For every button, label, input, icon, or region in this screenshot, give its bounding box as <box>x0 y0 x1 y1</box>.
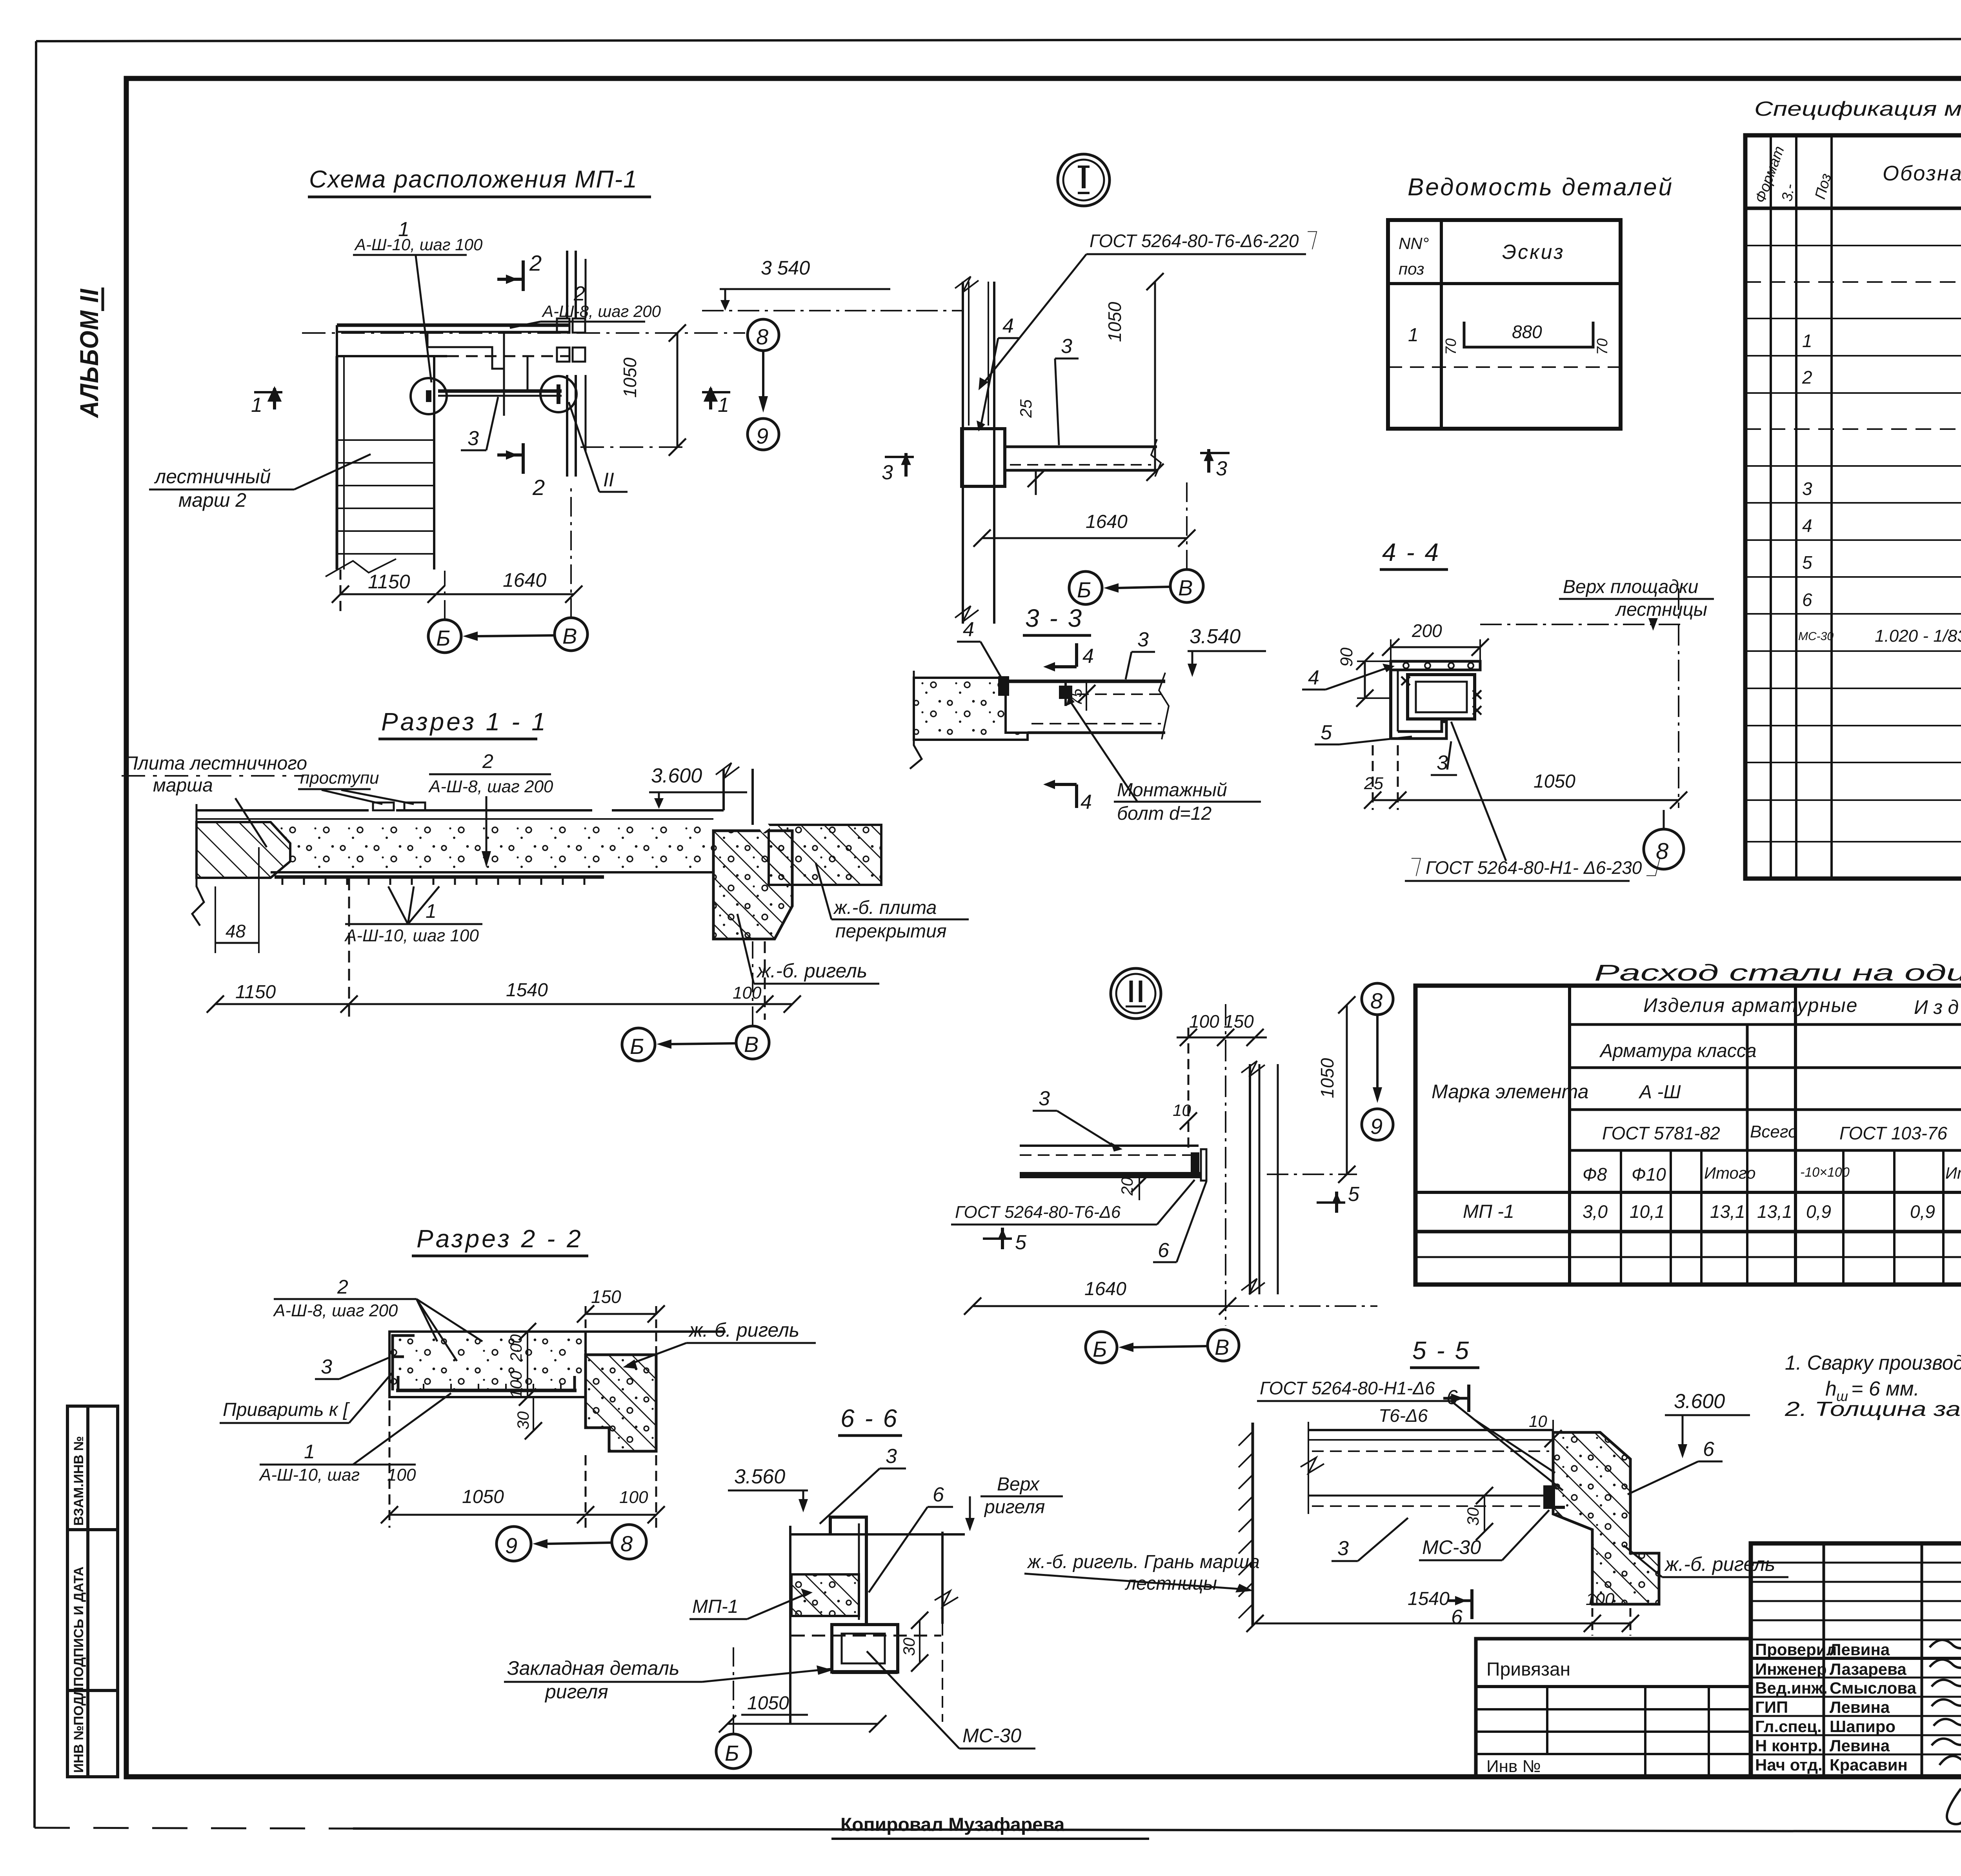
svg-text:Расход стали на один элеме: Расход стали на один элемент, кг <box>1594 960 1961 986</box>
detail circle on plan (right, node II) <box>540 376 577 412</box>
channel end at left <box>393 1336 415 1390</box>
svg-text:1640: 1640 <box>1084 1279 1126 1299</box>
svg-text:А-Ш-8, шаг 200: А-Ш-8, шаг 200 <box>273 1301 398 1320</box>
svg-text:2: 2 <box>529 251 542 275</box>
svg-text:5: 5 <box>1802 552 1812 573</box>
svg-text:48: 48 <box>226 921 246 941</box>
signature rows <box>1755 1640 1917 1774</box>
svg-text:Левина: Левина <box>1830 1736 1890 1755</box>
wall verticals of node I <box>955 277 994 624</box>
svg-text:3: 3 <box>468 427 479 450</box>
slab of node I <box>1005 439 1161 477</box>
svg-text:Шапиро: Шапиро <box>1830 1717 1896 1736</box>
svg-text:3: 3 <box>882 461 893 484</box>
svg-text:Верх площадки: Верх площадки <box>1563 577 1698 597</box>
concrete band of 6-6 <box>791 1574 859 1616</box>
svg-text:ГОСТ 5264-80-Н1-Δ6: ГОСТ 5264-80-Н1-Δ6 <box>1260 1378 1435 1398</box>
svg-text:1: 1 <box>304 1441 315 1463</box>
svg-text:6: 6 <box>1158 1239 1169 1262</box>
svg-text:10,1: 10,1 <box>1630 1201 1665 1222</box>
svg-text:В: В <box>744 1032 759 1057</box>
floor slab right hatched <box>769 825 881 885</box>
axis circle 8 with arrow to 9 <box>748 319 779 351</box>
svg-text:Спецификация монолитной ж-б: Спецификация монолитной ж-б лестничной п… <box>1754 98 1961 120</box>
svg-text:Приварить к [: Приварить к [ <box>223 1399 350 1420</box>
wall with hatch of 5-5 <box>1252 1423 1254 1626</box>
svg-text:100: 100 <box>507 1370 525 1398</box>
svg-text:3: 3 <box>886 1445 897 1468</box>
svg-text:Итого: Итого <box>1945 1164 1961 1182</box>
landing block of 3-3 <box>914 678 1028 740</box>
MC-30 embed of 6-6 <box>832 1625 898 1672</box>
svg-text:ВЗАМ.ИНВ №: ВЗАМ.ИНВ № <box>71 1436 86 1526</box>
svg-text:ж.-б. ригель: ж.-б. ригель <box>1664 1553 1775 1575</box>
svg-text:1050: 1050 <box>1104 302 1125 342</box>
node I bubble <box>1058 154 1110 206</box>
svg-text:Б: Б <box>436 626 450 650</box>
vedomost table frame <box>1388 220 1621 429</box>
axis circles Б В of razrez 1-1 <box>622 1028 655 1061</box>
svg-text:ГОСТ 5781-82: ГОСТ 5781-82 <box>1602 1123 1720 1143</box>
svg-text:А -Ш: А -Ш <box>1638 1082 1681 1103</box>
svg-text:2: 2 <box>337 1276 348 1298</box>
svg-text:6: 6 <box>1703 1438 1714 1461</box>
svg-text:-10×100: -10×100 <box>1800 1165 1850 1180</box>
svg-text:9: 9 <box>756 424 768 448</box>
section flag 5 right <box>1317 1201 1345 1204</box>
svg-text:Н контр.: Н контр. <box>1755 1736 1822 1755</box>
svg-text:ПОДПИСЬ И ДАТА: ПОДПИСЬ И ДАТА <box>71 1567 86 1687</box>
svg-text:Всего: Всего <box>1750 1122 1798 1141</box>
svg-text:А-Ш-8, шаг 200: А-Ш-8, шаг 200 <box>428 777 553 796</box>
svg-text:марша: марша <box>153 775 213 796</box>
svg-text:150: 150 <box>1224 1011 1254 1032</box>
svg-text:В: В <box>1178 575 1193 600</box>
level dash-dot line <box>702 310 963 311</box>
svg-text:Разрез 1 - 1: Разрез 1 - 1 <box>381 708 548 736</box>
svg-text:1050: 1050 <box>1317 1058 1337 1098</box>
svg-text:200: 200 <box>1412 620 1442 641</box>
stair flight (лестничный марш) <box>326 356 434 577</box>
svg-text:ж.-б. ригель: ж.-б. ригель <box>688 1319 799 1341</box>
svg-text:ГОСТ 5264-80-Т6-Δ6: ГОСТ 5264-80-Т6-Δ6 <box>955 1203 1121 1222</box>
svg-text:Б: Б <box>1077 577 1091 602</box>
svg-text:30: 30 <box>514 1411 532 1430</box>
landing slab plan <box>337 325 570 356</box>
svg-text:проступи: проступи <box>300 768 379 788</box>
channel beam of 3-3 <box>1006 673 1169 739</box>
svg-text:Б: Б <box>725 1741 739 1765</box>
svg-text:Обозначение: Обозначение <box>1883 162 1961 185</box>
svg-text:Итого: Итого <box>1704 1164 1756 1182</box>
svg-text:3 - 3: 3 - 3 <box>1025 604 1083 632</box>
svg-text:4 - 4: 4 - 4 <box>1382 538 1440 566</box>
svg-text:Верх: Верх <box>997 1474 1040 1495</box>
axis circle Б of 6-6 <box>716 1734 751 1769</box>
left edge and bottom lines of 6-6 <box>790 1526 958 1724</box>
svg-text:В: В <box>562 624 577 648</box>
svg-text:5: 5 <box>1321 721 1332 744</box>
slab of razrez 2-2 <box>389 1332 586 1397</box>
axis circles 9 8 of razrez 2-2 <box>497 1527 531 1561</box>
svg-text:13,1: 13,1 <box>1710 1201 1745 1222</box>
svg-text:Левина: Левина <box>1830 1640 1890 1659</box>
landing slab dotted <box>271 822 713 872</box>
svg-text:3: 3 <box>1802 479 1812 499</box>
svg-text:= 6 мм.: = 6 мм. <box>1851 1377 1919 1400</box>
svg-text:МС-30: МС-30 <box>1422 1536 1481 1558</box>
svg-text:лестничный: лестничный <box>154 466 271 488</box>
rebar of razrez 2-2 <box>396 1389 577 1392</box>
wall columns at right of plan <box>557 251 586 477</box>
bracket plate at wall <box>962 429 1005 486</box>
svg-text:4: 4 <box>963 618 974 641</box>
svg-text:30: 30 <box>1464 1507 1482 1526</box>
section flag 4 lower <box>1049 783 1077 786</box>
svg-text:перекрытия: перекрытия <box>835 921 947 942</box>
svg-text:6: 6 <box>1451 1606 1463 1629</box>
svg-text:Инв №: Инв № <box>1486 1757 1541 1776</box>
svg-text:70: 70 <box>1594 338 1611 355</box>
svg-text:2: 2 <box>1802 367 1812 388</box>
svg-text:4: 4 <box>1082 645 1094 668</box>
svg-text:Вед.инж.: Вед.инж. <box>1755 1679 1828 1697</box>
svg-text:3: 3 <box>1061 335 1072 358</box>
svg-text:А-Ш-10, шаг: А-Ш-10, шаг <box>258 1465 360 1485</box>
svg-text:Инженер: Инженер <box>1755 1660 1827 1678</box>
inner plan details <box>427 332 528 416</box>
svg-text:Закладная деталь: Закладная деталь <box>507 1657 679 1679</box>
svg-text:ГОСТ 103-76: ГОСТ 103-76 <box>1839 1123 1947 1143</box>
svg-text:5: 5 <box>1015 1231 1027 1254</box>
svg-text:100: 100 <box>619 1488 648 1507</box>
svg-text:В: В <box>1215 1335 1229 1359</box>
svg-text:90: 90 <box>1337 648 1356 667</box>
spec table grid <box>1745 135 1961 879</box>
svg-text:30: 30 <box>900 1638 918 1656</box>
svg-text:3.-: 3.- <box>1779 183 1798 203</box>
left edge of flight with break <box>192 804 204 926</box>
svg-text:8: 8 <box>620 1531 633 1556</box>
bracket and bolt of 3-3 <box>998 676 1009 696</box>
svg-text:Схема расположения МП-1: Схема расположения МП-1 <box>309 166 638 193</box>
axis circle 8 of 4-4 <box>1644 829 1684 869</box>
svg-text:13,1: 13,1 <box>1757 1201 1792 1222</box>
svg-text:4: 4 <box>1081 791 1092 813</box>
signatures squiggles <box>1930 1637 1961 1824</box>
svg-text:5: 5 <box>1348 1183 1360 1206</box>
svg-text:NN°: NN° <box>1399 234 1429 253</box>
svg-text:20: 20 <box>1118 1177 1136 1196</box>
svg-text:⏋ГОСТ 5264-80-Н1- Δ6-230 ⏌: ⏋ГОСТ 5264-80-Н1- Δ6-230 ⏌ <box>1408 857 1665 878</box>
svg-text:Красавин: Красавин <box>1830 1756 1908 1774</box>
svg-text:Марка элемента: Марка элемента <box>1432 1081 1589 1103</box>
svg-text:2. Толщина защитного слоя б: 2. Толщина защитного слоя бетона - 10 мм… <box>1785 1398 1961 1421</box>
svg-text:1050: 1050 <box>747 1693 789 1714</box>
svg-text:2: 2 <box>532 475 545 500</box>
svg-text:Т6-Δ6: Т6-Δ6 <box>1379 1405 1428 1426</box>
svg-text:Проверил: Проверил <box>1755 1640 1837 1659</box>
svg-text:2: 2 <box>482 750 493 772</box>
svg-text:6: 6 <box>1802 590 1812 610</box>
svg-text:Ф8: Ф8 <box>1583 1164 1607 1185</box>
svg-text:6: 6 <box>933 1483 944 1506</box>
svg-text:Арматура класса: Арматура класса <box>1599 1041 1757 1061</box>
svg-text:100: 100 <box>733 983 762 1003</box>
sidebar rotated labels <box>71 1436 86 1773</box>
svg-text:болт d=12: болт d=12 <box>1117 803 1212 824</box>
svg-text:1150: 1150 <box>235 982 276 1003</box>
svg-text:3: 3 <box>1137 628 1149 651</box>
svg-text:Изделия закладные: Изделия закладные <box>1914 996 1961 1018</box>
svg-text:А-Ш-10, шаг 100: А-Ш-10, шаг 100 <box>344 926 479 945</box>
floor slab of 5-5 <box>1301 1422 1553 1514</box>
svg-text:Изделия арматурные: Изделия арматурные <box>1643 994 1858 1016</box>
svg-text:Ф10: Ф10 <box>1632 1164 1666 1185</box>
svg-text:3.600: 3.600 <box>1674 1390 1725 1413</box>
bottom dimensions of plan <box>332 570 582 612</box>
svg-text:Б: Б <box>1093 1337 1107 1361</box>
svg-text:Разрез 2 - 2: Разрез 2 - 2 <box>417 1225 583 1253</box>
svg-text:100: 100 <box>387 1465 416 1485</box>
album II rotated label <box>75 287 104 419</box>
svg-text:150: 150 <box>591 1286 621 1307</box>
svg-text:4: 4 <box>1002 315 1014 337</box>
wall verticals of node II <box>1241 1061 1278 1294</box>
finish layer lines <box>196 802 724 819</box>
razrez 1-1 bottom dimensions <box>207 879 801 1020</box>
svg-text:МС-30: МС-30 <box>1798 630 1834 643</box>
section flag 5 left <box>983 1237 1012 1240</box>
spec table thin row lines <box>1745 246 1961 842</box>
wall stub above beam <box>716 763 753 825</box>
svg-text:1640: 1640 <box>1086 511 1128 532</box>
svg-text:1540: 1540 <box>1408 1589 1450 1609</box>
rebar mesh line with ticks <box>275 875 604 879</box>
svg-text:марш 2: марш 2 <box>178 489 246 511</box>
section marks 3 of node I <box>882 449 1230 484</box>
svg-text:ГОСТ 5264-80-Т6-Δ6-220 ⏋: ГОСТ 5264-80-Т6-Δ6-220 ⏋ <box>1090 231 1322 251</box>
svg-text:3.600: 3.600 <box>651 764 702 787</box>
svg-text:8: 8 <box>756 324 768 349</box>
svg-text:ригеля: ригеля <box>544 1681 608 1703</box>
svg-text:Копировал Музафарева: Копировал Музафарева <box>840 1814 1065 1835</box>
svg-text:Гл.спец.: Гл.спец. <box>1755 1717 1822 1736</box>
svg-text:МС-30: МС-30 <box>962 1725 1021 1747</box>
svg-text:3: 3 <box>1216 457 1227 480</box>
svg-text:II: II <box>603 469 614 491</box>
flight plate hatched <box>196 822 290 878</box>
svg-text:4: 4 <box>1802 515 1812 536</box>
svg-text:3 540: 3 540 <box>761 257 810 279</box>
svg-text:1. Сварку производить электр: 1. Сварку производить электродами типа Э… <box>1785 1352 1961 1374</box>
svg-text:Плита лестничного: Плита лестничного <box>124 753 307 774</box>
svg-text:8: 8 <box>1656 839 1668 864</box>
svg-text:1: 1 <box>1408 325 1419 346</box>
svg-text:Ведомость деталей: Ведомость деталей <box>1408 174 1674 201</box>
svg-text:ГИП: ГИП <box>1755 1698 1788 1716</box>
svg-text:100: 100 <box>1189 1011 1219 1032</box>
svg-text:6 - 6: 6 - 6 <box>840 1404 899 1432</box>
svg-text:1.020 - 1/83, вып 7-1, 100: 1.020 - 1/83, вып 7-1, 100 <box>1875 626 1961 646</box>
svg-text:поз: поз <box>1399 260 1424 278</box>
axis circles Б В of node II <box>1086 1332 1117 1363</box>
svg-text:ж.-б. плита: ж.-б. плита <box>833 897 937 918</box>
left sidebar boxes <box>67 1406 118 1777</box>
svg-text:70: 70 <box>1443 338 1459 355</box>
svg-text:0,9: 0,9 <box>1806 1201 1831 1222</box>
top line extension of razrez 2-2 <box>389 1330 726 1333</box>
axis dash-dot vertical of node II <box>1225 1004 1226 1326</box>
level line and Верх площадки лестницы <box>1480 624 1683 625</box>
slab of node II <box>1020 1146 1200 1174</box>
svg-text:h: h <box>1825 1377 1837 1400</box>
svg-text:25: 25 <box>1017 399 1035 418</box>
section flag 4 upper <box>1049 665 1077 668</box>
svg-text:ригеля: ригеля <box>984 1497 1045 1518</box>
svg-text:Смыслова: Смыслова <box>1830 1679 1917 1697</box>
svg-text:1: 1 <box>718 394 729 417</box>
svg-text:10: 10 <box>1529 1412 1547 1430</box>
svg-text:4: 4 <box>1308 666 1319 689</box>
detail circle on plan (left) <box>411 378 447 414</box>
svg-text:5 - 5: 5 - 5 <box>1412 1336 1470 1365</box>
horizontal axis dash-dot line to circle 8 <box>302 332 745 334</box>
svg-text:8: 8 <box>1370 988 1383 1013</box>
svg-text:1: 1 <box>426 900 437 922</box>
axis circles Б В of node I <box>1069 571 1102 604</box>
beam concrete of 5-5 <box>1553 1432 1659 1604</box>
channel section of 4-4 <box>1391 661 1480 739</box>
axis circle 9 of node II <box>1362 1109 1393 1140</box>
svg-text:3.540: 3.540 <box>1190 625 1241 648</box>
svg-text:9: 9 <box>1370 1114 1383 1139</box>
beam (ж-б ригель) hatched <box>713 831 792 939</box>
svg-text:Лазарева: Лазарева <box>1830 1660 1906 1678</box>
axis circle 8 of node II <box>1362 983 1393 1015</box>
channel bar of node II <box>1020 1172 1200 1178</box>
node II bubble <box>1111 968 1161 1019</box>
section marks 1-1 <box>251 388 730 417</box>
svg-text:3: 3 <box>1437 751 1448 774</box>
svg-text:МП-1: МП-1 <box>692 1596 738 1617</box>
svg-text:1050: 1050 <box>462 1487 504 1507</box>
svg-text:9: 9 <box>505 1533 517 1558</box>
svg-text:лестницы: лестницы <box>1615 599 1707 620</box>
svg-text:3: 3 <box>1337 1537 1349 1560</box>
MC-30 embed of 4-4 <box>1408 675 1475 719</box>
svg-text:ИНВ №ПОДЛ.: ИНВ №ПОДЛ. <box>71 1683 86 1773</box>
svg-text:200: 200 <box>507 1334 525 1362</box>
prostupi tabs <box>373 802 394 810</box>
steel angle at joint of 5-5 <box>1543 1485 1555 1507</box>
svg-text:Левина: Левина <box>1830 1698 1890 1716</box>
svg-text:1: 1 <box>251 394 262 417</box>
svg-text:Нач отд.: Нач отд. <box>1755 1756 1823 1774</box>
svg-text:1150: 1150 <box>368 571 410 593</box>
svg-text:880: 880 <box>1512 322 1542 342</box>
axis circles Б and В below plan <box>428 620 461 653</box>
weld x marks of 4-4 <box>1401 677 1481 715</box>
dots on top plate of 4-4 <box>1403 663 1473 668</box>
svg-text:10: 10 <box>1173 1101 1191 1119</box>
top line of 6-6 <box>790 1533 965 1536</box>
svg-text:0,9: 0,9 <box>1910 1201 1935 1222</box>
svg-text:АЛЬБОМ II: АЛЬБОМ II <box>75 288 104 419</box>
svg-text:1050: 1050 <box>1534 771 1575 792</box>
svg-text:100: 100 <box>1586 1590 1615 1609</box>
leader from label 1 to detail circle <box>416 256 431 382</box>
channel hook of 6-6 <box>830 1517 866 1624</box>
svg-text:Эскиз: Эскиз <box>1502 241 1565 264</box>
svg-text:ж.-б. ригель. Грань марша: ж.-б. ригель. Грань марша <box>1027 1552 1260 1572</box>
raskhod table grid <box>1415 986 1961 1285</box>
svg-text:1: 1 <box>1802 331 1812 351</box>
svg-text:ж.-б. ригель: ж.-б. ригель <box>756 960 867 982</box>
svg-text:А-Ш-10, шаг 100: А-Ш-10, шаг 100 <box>354 235 483 254</box>
svg-text:3.560: 3.560 <box>734 1465 785 1488</box>
svg-text:3: 3 <box>1039 1087 1050 1110</box>
svg-text:1540: 1540 <box>506 980 548 1001</box>
svg-text:3,0: 3,0 <box>1583 1201 1608 1222</box>
channel bar in plan <box>438 389 562 393</box>
beam of razrez 2-2 <box>586 1355 656 1451</box>
svg-text:Б: Б <box>630 1034 644 1059</box>
svg-text:1050: 1050 <box>620 357 640 398</box>
svg-text:1640: 1640 <box>503 569 546 591</box>
svg-text:3: 3 <box>321 1356 332 1378</box>
svg-text:Привязан: Привязан <box>1486 1659 1570 1680</box>
svg-text:МП -1: МП -1 <box>1463 1201 1514 1222</box>
